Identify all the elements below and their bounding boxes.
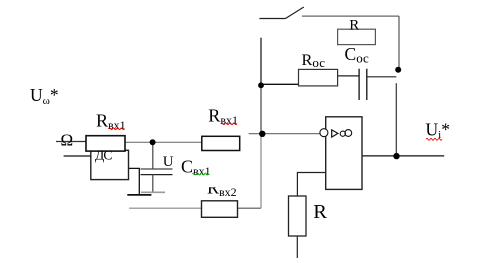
squiggle red under Ui (426, 138, 442, 140)
ground lower bar (127, 194, 151, 196)
wire Roc left lead (261, 83, 299, 85)
resistor Rvx1 second box (202, 136, 240, 150)
wire switch top horizontal (302, 15, 399, 17)
resistor Rvx1 box (86, 136, 125, 151)
resistor box DS (behind Rvx1) (91, 150, 129, 179)
wire summing vertical middle (260, 85, 262, 134)
op-amp triangle symbol (332, 130, 338, 137)
capacitor Coc left plate (358, 69, 360, 100)
junction node Roc tap (258, 82, 264, 88)
junction node inverting input (259, 131, 265, 137)
capacitor Coc right plate (366, 69, 368, 100)
wire DS box to ground (129, 168, 140, 195)
wire capacitor to ground (152, 175, 154, 193)
wire DS input lower-left (64, 155, 91, 157)
wire main node horizontal (125, 141, 202, 143)
squiggle red under vx1 second (221, 123, 237, 125)
op-amp infinity symbol (340, 131, 345, 136)
wire op-amp output (362, 155, 444, 157)
svg-text:U: U (163, 154, 174, 170)
wire non-inverting input (297, 173, 325, 197)
wire top right vertical (398, 16, 400, 70)
svg-text:Ω: Ω (61, 130, 74, 149)
wire node to capacitor (152, 142, 154, 169)
capacitor Cvx1 bottom plate (141, 174, 173, 176)
wire Roc to Coc (338, 75, 360, 77)
op-amp inverting input circle (320, 129, 328, 137)
svg-text:R: R (313, 201, 327, 223)
capacitor Cvx1 top plate (141, 168, 173, 170)
wire Rvx2 left lead (129, 207, 201, 209)
resistor Rvx2 box (202, 201, 238, 218)
junction node at main input (150, 139, 156, 145)
ground upper bar (141, 191, 165, 193)
wire Rvx2 right lead (238, 207, 262, 209)
switch left wire (259, 18, 285, 20)
svg-text:ДС: ДС (95, 148, 112, 163)
wire omega input (56, 141, 86, 143)
wire below resistor R (296, 236, 298, 258)
wire summing vertical lower (260, 134, 262, 208)
op-amp U1 box (326, 117, 362, 190)
switch blade (286, 7, 304, 19)
label Rvx2 (top of R clipped) (207, 178, 237, 200)
resistor R top box (338, 29, 376, 44)
wire op-amp inverting input (249, 133, 321, 135)
resistor Roc box (299, 69, 338, 86)
wire feedback vertical to output (395, 83, 397, 156)
svg-text:R: R (349, 18, 359, 34)
resistor R vertical box (289, 196, 307, 236)
squiggle red under vx1 first (109, 128, 125, 130)
wire summing vertical upper (260, 38, 262, 86)
wire Coc right lead (367, 76, 396, 78)
svg-text:Ui*: Ui* (426, 119, 450, 141)
squiggle green under Cvx1 (193, 173, 209, 175)
junction node output (393, 153, 399, 159)
junction node feedback top (395, 67, 401, 73)
